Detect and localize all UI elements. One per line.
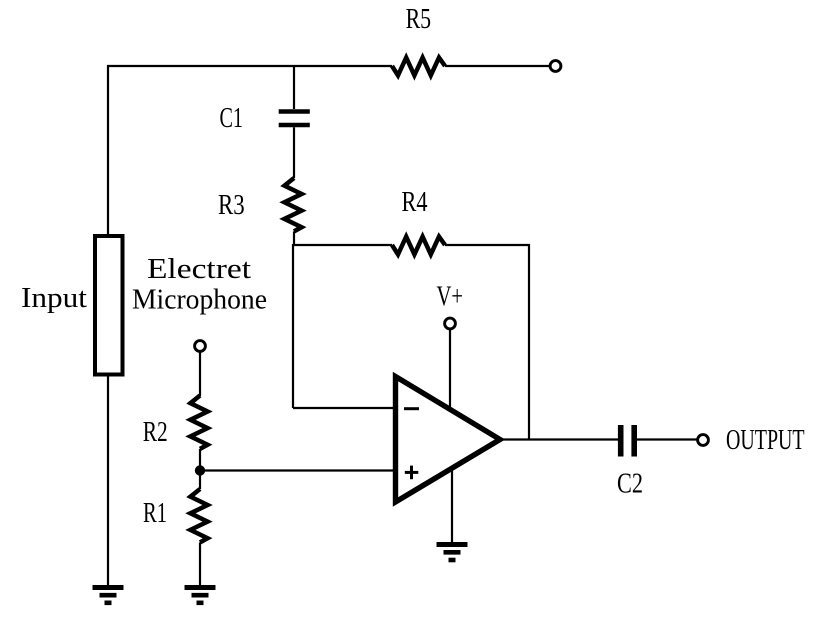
op-amp plus sign xyxy=(405,466,419,480)
capacitor C1 xyxy=(279,112,310,126)
wire R1 to ground xyxy=(199,542,201,585)
svg-text:C2: C2 xyxy=(617,468,643,500)
svg-text:Input: Input xyxy=(21,282,87,314)
wire node to non-inverting input xyxy=(200,469,396,471)
wire C2 to output terminal xyxy=(637,438,698,440)
resistor R3 xyxy=(284,178,301,231)
wire to inverting input xyxy=(293,407,396,409)
svg-text:OUTPUT: OUTPUT xyxy=(726,424,805,456)
op-amp U1 xyxy=(396,377,501,503)
wire mic to ground xyxy=(107,375,109,586)
svg-text:C1: C1 xyxy=(220,102,244,134)
resistor R2 xyxy=(190,396,207,449)
wire inverting branch vertical xyxy=(292,244,294,408)
svg-text:Microphone: Microphone xyxy=(132,284,267,316)
wire C1 to R3 xyxy=(293,127,295,178)
ground (input) xyxy=(93,588,124,603)
wire feedback vertical xyxy=(528,244,530,440)
svg-text:R2: R2 xyxy=(143,416,168,448)
wire C1 top lead xyxy=(293,66,295,109)
node junction dot xyxy=(195,465,205,475)
resistor R1 xyxy=(190,489,207,542)
wire R3 to R4 node xyxy=(293,231,295,246)
svg-text:R4: R4 xyxy=(402,186,428,218)
ground (R1) xyxy=(185,588,216,603)
resistor R5 xyxy=(392,58,445,76)
capacitor C2 xyxy=(621,425,635,457)
svg-text:R5: R5 xyxy=(406,3,432,35)
op-amp minus sign xyxy=(404,407,419,410)
wire top rail xyxy=(108,66,392,236)
terminal circle (R5 output) xyxy=(550,61,561,72)
wire R2 to node xyxy=(199,449,201,489)
microphone element Input xyxy=(95,236,123,375)
svg-text:R1: R1 xyxy=(143,497,167,529)
wire op-amp to ground xyxy=(451,468,453,543)
wire R4 left lead xyxy=(293,244,392,246)
svg-text:Electret: Electret xyxy=(147,253,251,285)
wire V+ to op-amp xyxy=(449,330,451,411)
wire R4 right lead xyxy=(445,244,530,246)
wire op-amp output xyxy=(500,438,618,440)
ground (op-amp) xyxy=(437,545,468,561)
resistor R4 xyxy=(392,237,445,255)
terminal circle (OUTPUT) xyxy=(698,435,709,446)
wire R2 top lead xyxy=(199,352,201,396)
svg-text:V+: V+ xyxy=(437,281,464,313)
terminal circle (R2 top) xyxy=(195,341,206,352)
terminal circle (V+) xyxy=(445,318,456,329)
wire R5 to terminal xyxy=(445,65,550,67)
svg-text:R3: R3 xyxy=(218,189,245,221)
